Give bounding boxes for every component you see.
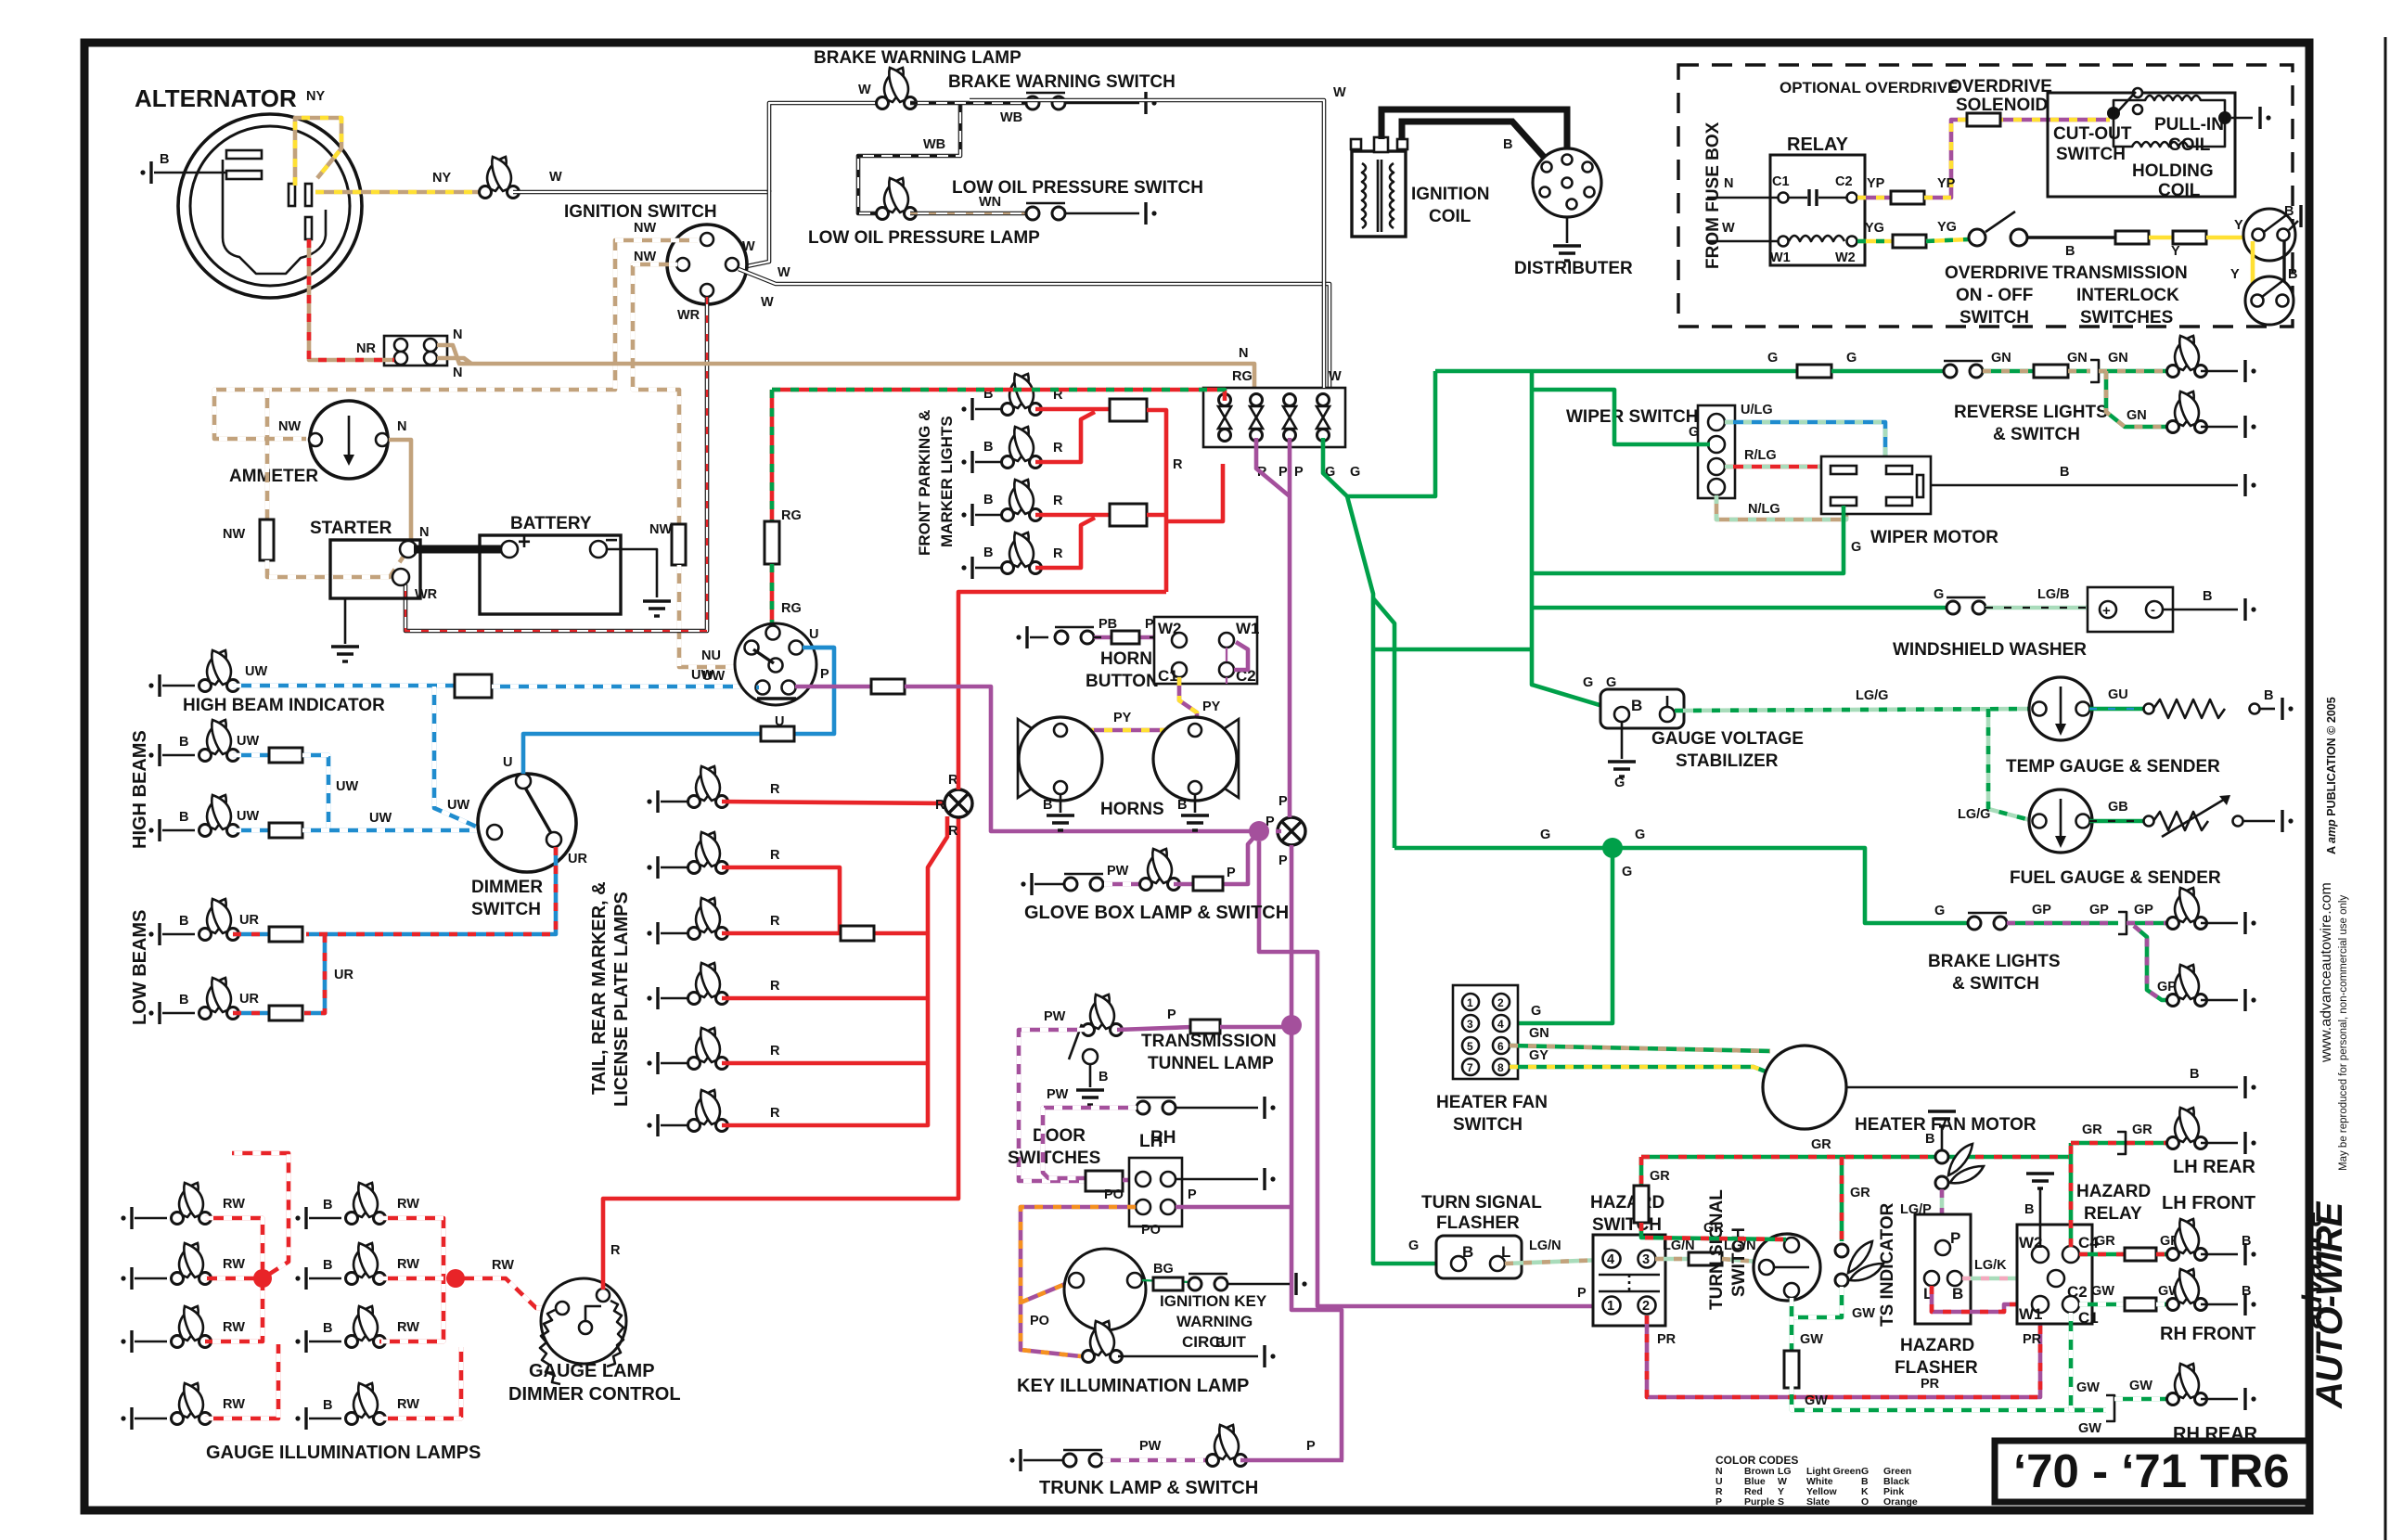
svg-text:C2: C2: [2067, 1283, 2088, 1301]
starter ground lead: [344, 598, 347, 644]
svg-text:BG: BG: [1153, 1262, 1174, 1277]
wire G run2 brake feed: [1394, 848, 1967, 923]
fuse low beam 2: [269, 1006, 302, 1020]
svg-text:U: U: [809, 627, 818, 642]
svg-text:RW: RW: [223, 1397, 245, 1412]
svg-text:LG/N: LG/N: [1529, 1238, 1561, 1253]
svg-text:R: R: [1053, 546, 1063, 561]
ground battery: [643, 601, 671, 616]
wire PO branch to key switch: [1021, 1282, 1070, 1303]
fuel sender variable resistor: [2144, 816, 2154, 827]
ground tail lamp 5: [647, 1052, 658, 1074]
wire GN fuse to bracket: [2068, 369, 2090, 374]
wire RG fuse to connector top: [770, 564, 775, 629]
svg-text:R/LG: R/LG: [1744, 448, 1777, 463]
overdrive on-off switch: [1969, 229, 1985, 246]
svg-text:W: W: [761, 295, 774, 310]
wire P trunk lamp to vertical: [1240, 1458, 1343, 1463]
ignition key warning switch body: [1064, 1249, 1146, 1330]
svg-text:CUT-OUT: CUT-OUT: [2053, 124, 2132, 144]
gauge illumination lamp L2: [172, 1243, 212, 1285]
svg-text:B: B: [2190, 1067, 2199, 1082]
svg-text:3: 3: [1467, 1018, 1473, 1031]
wiper switch box: [1698, 405, 1735, 498]
svg-text:Purple: Purple: [1744, 1496, 1775, 1508]
wire G washer branch: [1532, 606, 1946, 610]
connector bracket brake: [2118, 912, 2127, 934]
wire UW fuse1 to bus: [302, 755, 328, 830]
wire GR branch to indicator lamp: [1840, 1157, 1844, 1241]
svg-text:RELAY: RELAY: [1787, 135, 1849, 155]
svg-text:R: R: [1053, 441, 1063, 456]
wire RW col1 net: [205, 1218, 263, 1341]
fuse GN: [2034, 365, 2068, 378]
wire GR fuse to LH front lamp: [2156, 1252, 2171, 1257]
brake warning switch: [1026, 93, 1065, 109]
wire GN branch to reverse lamp2: [2106, 371, 2171, 427]
ground low beam lamp 1: [148, 923, 160, 945]
fuse LH front: [2125, 1248, 2156, 1261]
tail lamp 1: [688, 766, 728, 808]
ground gauge lamp R2: [295, 1267, 306, 1290]
svg-text:LH REAR: LH REAR: [2173, 1157, 2255, 1177]
svg-text:B: B: [2203, 589, 2212, 604]
svg-text:W: W: [1333, 85, 1346, 100]
horn 1: [1019, 717, 1102, 801]
svg-text:4: 4: [1497, 1018, 1504, 1031]
svg-text:B: B: [1043, 798, 1052, 813]
svg-text:PY: PY: [1113, 711, 1132, 725]
svg-text:GW: GW: [1800, 1332, 1823, 1347]
wire R fuse1 to vertical: [1147, 410, 1166, 592]
gauge illumination lamp L4: [172, 1383, 212, 1425]
horn 1 bell: [1018, 719, 1040, 798]
svg-text:3: 3: [1642, 1252, 1650, 1267]
svg-text:RG: RG: [1232, 369, 1253, 384]
svg-text:TAIL, REAR MARKER, &: TAIL, REAR MARKER, &: [589, 881, 610, 1095]
tunnel lamp B ground: [1089, 1064, 1092, 1087]
svg-text:W: W: [1329, 369, 1342, 384]
wire LG/N fuse to TS switch: [1722, 1259, 1759, 1262]
gauge illumination lamp R1: [346, 1183, 386, 1225]
svg-text:HAZARD: HAZARD: [1900, 1336, 1974, 1355]
svg-text:BRAKE WARNING SWITCH: BRAKE WARNING SWITCH: [948, 72, 1176, 92]
wire UR lamp to fuse: [233, 932, 271, 937]
ground parking lamp 2: [961, 451, 972, 473]
gauge illumination lamp R3: [346, 1306, 386, 1348]
wire LG/G branch to fuel gauge: [1988, 709, 2034, 821]
OPTIONAL OVERDRIVE dashed box: [1678, 65, 2293, 327]
wire NY loop at alternator top: [295, 118, 341, 186]
svg-text:HIGH BEAM INDICATOR: HIGH BEAM INDICATOR: [183, 696, 385, 715]
fuse GW vertical: [1784, 1351, 1799, 1388]
svg-text:WB: WB: [923, 137, 945, 152]
wire LG/N flasher to hazard: [1505, 1260, 1603, 1264]
svg-text:BRAKE WARNING LAMP: BRAKE WARNING LAMP: [814, 48, 1022, 68]
wire GU temp to resistor: [2089, 707, 2145, 712]
wire LG/P indicator to flasher P: [1940, 1189, 1945, 1241]
svg-text:& SWITCH: & SWITCH: [1993, 425, 2080, 444]
svg-text:5: 5: [1467, 1040, 1473, 1053]
svg-text:Y: Y: [2230, 267, 2240, 282]
wire R parking lamp1 to fuse: [1035, 407, 1110, 412]
svg-text:G: G: [1583, 675, 1593, 690]
svg-text:8: 8: [1497, 1061, 1504, 1074]
wire GW bracket to RH rear lamp: [2114, 1397, 2171, 1402]
svg-text:SWITCHES: SWITCHES: [1008, 1149, 1100, 1168]
wire Y between fuses: [2149, 236, 2175, 240]
RH FRONT lamp: [2167, 1269, 2207, 1311]
svg-text:UR: UR: [334, 968, 353, 982]
svg-text:B: B: [1631, 697, 1642, 714]
svg-text:SWITCH: SWITCH: [1960, 308, 2029, 327]
hazard relay box: [2017, 1225, 2092, 1324]
HEATER FAN SWITCH box: [1453, 985, 1518, 1079]
wire N ammeter to starter: [389, 440, 411, 543]
wire R X junction up to parking feed: [958, 592, 1166, 789]
svg-text:UW: UW: [369, 811, 392, 826]
wire R/LG wiper: [1725, 465, 1826, 469]
wire WB S-path to oil lamp: [858, 105, 960, 213]
turn signal switch body: [1754, 1234, 1820, 1301]
wire R parking lamp4 to fuse2: [1035, 518, 1095, 568]
svg-text:WINDSHIELD WASHER: WINDSHIELD WASHER: [1893, 640, 2087, 660]
glove box switch: [1064, 874, 1103, 891]
svg-text:B: B: [179, 810, 188, 825]
fuse tunnel lamp: [1190, 1020, 1220, 1033]
wire GW fuse to RH front lamp: [2156, 1303, 2171, 1307]
tail lamp 4: [688, 963, 728, 1005]
wire WB lamp to switch: [910, 101, 1025, 106]
svg-text:FROM FUSE BOX: FROM FUSE BOX: [1703, 122, 1723, 269]
svg-text:4: 4: [1607, 1252, 1614, 1267]
svg-text:PR: PR: [1657, 1332, 1677, 1347]
svg-text:W2: W2: [1158, 620, 1182, 637]
wire R tail bus: [722, 816, 947, 1125]
svg-text:PR: PR: [1921, 1377, 1940, 1392]
svg-text:LG/K: LG/K: [1974, 1258, 2007, 1273]
svg-text:GR: GR: [1650, 1169, 1670, 1184]
svg-text:P: P: [1167, 1007, 1176, 1022]
svg-text:W1: W1: [2019, 1305, 2043, 1323]
fuse UW indicator: [455, 674, 492, 698]
svg-text:& SWITCH: & SWITCH: [1952, 974, 2039, 994]
wire U connector to right: [803, 646, 834, 650]
wire key switch to ground: [1227, 1283, 1290, 1286]
svg-text:RELAY: RELAY: [2084, 1204, 2142, 1224]
svg-text:G: G: [1540, 828, 1550, 842]
low beam lamp 1: [199, 899, 239, 941]
wire GP bracket to lamp: [2127, 921, 2171, 926]
fuse horn button: [1111, 631, 1139, 644]
wire GW indicator to run: [1792, 1287, 1842, 1317]
svg-text:G: G: [1350, 465, 1360, 480]
svg-text:GN: GN: [1991, 351, 2011, 366]
svg-text:WN: WN: [979, 195, 1001, 210]
wire UW indicator run: [233, 684, 457, 688]
svg-text:HIGH BEAMS: HIGH BEAMS: [130, 730, 150, 849]
svg-text:OVERDRIVE: OVERDRIVE: [1948, 77, 2052, 96]
svg-text:LICENSE PLATE LAMPS: LICENSE PLATE LAMPS: [611, 892, 632, 1107]
svg-text:GR: GR: [1850, 1186, 1870, 1200]
wire P fuse to LH box: [1123, 1178, 1136, 1183]
svg-text:REVERSE LIGHTS: REVERSE LIGHTS: [1954, 403, 2108, 422]
svg-text:PW: PW: [1107, 864, 1129, 879]
svg-text:WIPER MOTOR: WIPER MOTOR: [1870, 528, 1998, 547]
wire PB horn button: [1094, 635, 1173, 640]
wire P to hazard feed: [1259, 841, 1605, 1306]
wire LG/K flasher B to relay C2: [1962, 1277, 2049, 1281]
svg-text:PW: PW: [1139, 1439, 1162, 1454]
svg-text:GAUGE ILLUMINATION LAMPS: GAUGE ILLUMINATION LAMPS: [206, 1443, 481, 1463]
horn button switch: [1055, 627, 1094, 644]
svg-text:G: G: [1614, 776, 1625, 790]
svg-text:SWITCH: SWITCH: [1453, 1115, 1523, 1135]
svg-text:COLOR CODES: COLOR CODES: [1715, 1454, 1798, 1467]
svg-text:COIL: COIL: [2168, 135, 2211, 155]
ground glove box: [1021, 873, 1032, 895]
svg-text:PW: PW: [1044, 1009, 1066, 1024]
svg-text:GU: GU: [2108, 687, 2128, 702]
fuse key warning: [1153, 1277, 1183, 1290]
svg-text:LH: LH: [1139, 1132, 1163, 1151]
trunk switch: [1063, 1450, 1102, 1467]
trunk lamp: [1207, 1425, 1247, 1467]
gauge illumination lamp L3: [172, 1306, 212, 1348]
svg-text:GR: GR: [1811, 1137, 1831, 1152]
svg-text:HAZARD: HAZARD: [2076, 1182, 2151, 1201]
svg-text:RW: RW: [397, 1257, 419, 1272]
svg-text:+: +: [518, 530, 531, 555]
svg-text:LOW BEAMS: LOW BEAMS: [130, 910, 150, 1025]
svg-text:WIPER SWITCH: WIPER SWITCH: [1566, 407, 1699, 427]
front parking lamp 4: [1002, 533, 1042, 574]
wire B upper interlock to ground: [2289, 221, 2298, 230]
svg-text:R: R: [770, 979, 780, 994]
svg-text:WARNING: WARNING: [1176, 1313, 1253, 1330]
wire GR to LH REAR: [2071, 1141, 2171, 1146]
svg-text:B: B: [1952, 1285, 1963, 1303]
svg-text:UW: UW: [245, 664, 267, 679]
svg-text:C1: C1: [2078, 1309, 2099, 1327]
front parking lamp 1: [1002, 374, 1042, 416]
wire UW lamp2 to fuse: [233, 828, 271, 833]
svg-text:A amp PUBLICATION © 2005: A amp PUBLICATION © 2005: [2325, 697, 2338, 854]
tail lamp 2: [688, 832, 728, 874]
wire Y fuse to interlock switch: [2206, 236, 2249, 240]
svg-text:B: B: [983, 440, 993, 455]
svg-text:ON - OFF: ON - OFF: [1956, 286, 2033, 305]
svg-text:LG/G: LG/G: [1958, 807, 1990, 822]
svg-text:R: R: [770, 1106, 780, 1121]
svg-text:LG/B: LG/B: [2037, 587, 2070, 602]
windshield washer pump box: [2088, 587, 2173, 632]
svg-text:W: W: [1722, 221, 1735, 236]
svg-text:IGNITION SWITCH: IGNITION SWITCH: [564, 202, 717, 222]
svg-text:P: P: [1227, 866, 1236, 880]
relay box: [1770, 155, 1865, 265]
svg-text:N: N: [1239, 346, 1248, 361]
svg-text:B: B: [179, 735, 188, 750]
fuse overdrive solenoid: [1967, 113, 2000, 126]
brake light switch: [1968, 913, 2007, 930]
tail lamp 5: [688, 1028, 728, 1070]
front parking lamp 3: [1002, 480, 1042, 521]
wire NR from alternator to box: [309, 239, 394, 360]
wire PW door loop: [1043, 1108, 1137, 1178]
wire B LH front ground: [2201, 1253, 2238, 1256]
svg-text:R: R: [770, 914, 780, 929]
TS indicator lamp alpha: [1835, 1244, 1848, 1257]
svg-text:S: S: [1778, 1496, 1784, 1508]
wire GY heater: [1510, 1067, 1766, 1072]
wire B reverse lamp1 ground: [2201, 370, 2238, 373]
svg-text:TS INDICATOR: TS INDICATOR: [1878, 1202, 1897, 1327]
svg-text:GY: GY: [1529, 1048, 1548, 1063]
svg-text:P: P: [1950, 1229, 1960, 1247]
fuse P run: [871, 679, 905, 694]
alternator outer circle: [178, 114, 362, 298]
ground low beam lamp 2: [148, 1002, 160, 1024]
svg-text:YG: YG: [1865, 221, 1884, 236]
wire B heater motor to ground: [1846, 1086, 2238, 1089]
wire B fuel sender ground: [2243, 820, 2275, 823]
wire B switch to fuse: [2027, 236, 2117, 238]
svg-text:RW: RW: [223, 1197, 245, 1212]
svg-text:GW: GW: [2078, 1421, 2101, 1436]
wire G main vertical right: [1532, 371, 1618, 711]
svg-text:AMMETER: AMMETER: [229, 467, 318, 486]
wire P LH to main vertical: [1176, 1205, 1291, 1210]
transmission tunnel lamp: [1083, 995, 1123, 1036]
ground parking lamp 1: [961, 398, 972, 420]
high beam lamp 1: [199, 720, 239, 762]
svg-text:W1: W1: [1770, 250, 1791, 265]
svg-text:RW: RW: [397, 1320, 419, 1335]
distributor ground: [1566, 217, 1569, 243]
G junction dot: [1602, 838, 1623, 858]
svg-text:GR: GR: [2132, 1123, 2152, 1137]
svg-text:GN: GN: [2108, 351, 2128, 366]
svg-text:P: P: [1715, 1496, 1722, 1508]
svg-text:GAUGE VOLTAGE: GAUGE VOLTAGE: [1651, 729, 1804, 749]
wire Y interlock vertical: [2251, 241, 2255, 293]
svg-text:FRONT PARKING &: FRONT PARKING &: [916, 410, 933, 556]
horn relay box: [1154, 617, 1257, 684]
distributor body: [1533, 148, 1601, 217]
cut-out switch contacts: [2133, 88, 2142, 97]
glove box lamp: [1140, 849, 1180, 891]
svg-text:WB: WB: [1000, 110, 1022, 125]
svg-text:N: N: [419, 525, 429, 540]
horn 2 ground: [1194, 794, 1197, 813]
ground gauge lamp R4: [295, 1407, 306, 1430]
wire WN lamp to switch: [910, 212, 1025, 216]
svg-text:GP: GP: [2032, 903, 2051, 918]
wire alternator ground lead: [154, 172, 228, 174]
alternator terminal bars: [226, 150, 262, 159]
svg-text:TRUNK LAMP & SWITCH: TRUNK LAMP & SWITCH: [1039, 1478, 1258, 1498]
wire GN heater: [1510, 1046, 1770, 1051]
svg-text:B: B: [983, 493, 993, 507]
low oil pressure switch: [1026, 203, 1065, 220]
svg-text:Slate: Slate: [1806, 1496, 1830, 1508]
wire PW glove: [1104, 882, 1140, 887]
HT cable coil to distributor: [1381, 109, 1567, 176]
svg-text:GLOVE BOX LAMP & SWITCH: GLOVE BOX LAMP & SWITCH: [1024, 903, 1289, 923]
holding coil: [2114, 113, 2225, 147]
wire NW upper from ignition switch: [214, 240, 698, 439]
svg-text:LOW OIL PRESSURE LAMP: LOW OIL PRESSURE LAMP: [808, 228, 1040, 248]
wire GW fuse to run: [1792, 1386, 2106, 1410]
svg-text:P: P: [1306, 1439, 1316, 1454]
svg-text:SOLENOID: SOLENOID: [1956, 96, 2048, 115]
tail lamp 6: [688, 1090, 728, 1132]
wire PO LH door to key circuit: [1021, 1207, 1136, 1356]
svg-text:G: G: [1635, 828, 1645, 842]
svg-text:W1: W1: [1236, 620, 1260, 637]
svg-text:FUEL GAUGE & SENDER: FUEL GAUGE & SENDER: [2010, 868, 2221, 888]
gauge illumination lamp L1: [172, 1183, 212, 1225]
fuse parking 1: [1110, 399, 1147, 421]
svg-text:RW: RW: [223, 1257, 245, 1272]
svg-text:UR: UR: [239, 992, 259, 1007]
svg-text:P: P: [1279, 794, 1288, 809]
key warning buzzer switch: [1189, 1274, 1227, 1290]
svg-text:SWITCHES: SWITCHES: [2080, 308, 2173, 327]
svg-text:MARKER LIGHTS: MARKER LIGHTS: [938, 416, 956, 547]
svg-text:W2: W2: [2019, 1234, 2043, 1251]
WIPER MOTOR box: [1821, 456, 1931, 514]
wire B LH rear ground: [2201, 1142, 2238, 1145]
ground tail lamp 4: [647, 987, 658, 1009]
wire RW col2 net: [379, 1218, 443, 1341]
svg-text:RH REAR: RH REAR: [2173, 1424, 2258, 1444]
svg-text:HOLDING: HOLDING: [2132, 161, 2214, 181]
fuse tail lamp3: [841, 926, 874, 941]
svg-text:B: B: [2264, 688, 2273, 703]
wire UW fuse to connector: [492, 685, 759, 689]
ground tail lamp 6: [647, 1114, 658, 1136]
svg-text:G: G: [1531, 1004, 1541, 1019]
wire NW fuse to NU terminal: [679, 565, 768, 667]
svg-text:GP: GP: [2089, 903, 2109, 918]
svg-text:B: B: [323, 1258, 332, 1273]
relay coil: [1789, 236, 1844, 241]
fuse parking 2: [1110, 504, 1147, 526]
high beam indicator lamp: [199, 650, 239, 692]
wire GW relay C1 down to run: [2071, 1313, 2106, 1410]
wire W ign switch to right run: [739, 269, 1330, 388]
svg-text:INTERLOCK: INTERLOCK: [2076, 286, 2179, 305]
wire B indicator to ground: [1941, 1127, 1944, 1150]
svg-text:B: B: [2065, 244, 2075, 259]
svg-text:U/LG: U/LG: [1741, 403, 1773, 417]
tunnel lamp switch lever: [1069, 1024, 1082, 1059]
svg-text:W2: W2: [1835, 250, 1856, 265]
relay capacitor: [1789, 197, 1807, 199]
svg-text:B: B: [983, 545, 993, 560]
reverse lamp 1: [2167, 336, 2207, 378]
svg-text:GR: GR: [2095, 1234, 2115, 1249]
fuse RH front: [2125, 1298, 2156, 1311]
key illumination lamp: [1083, 1321, 1123, 1363]
wire UR branch down: [304, 934, 325, 1013]
connector bracket reverse: [2090, 360, 2099, 382]
svg-text:R: R: [770, 1044, 780, 1059]
svg-text:RH FRONT: RH FRONT: [2160, 1324, 2255, 1344]
svg-text:GN: GN: [1529, 1026, 1549, 1041]
